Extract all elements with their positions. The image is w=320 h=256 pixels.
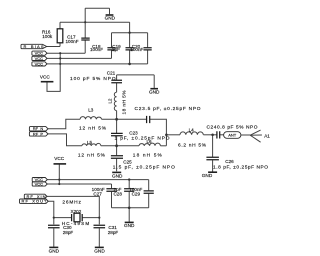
svg-text:6.2 nH 5%: 6.2 nH 5% [178, 142, 207, 148]
svg-text:VCC: VCC [35, 61, 44, 66]
svg-text:ANT: ANT [228, 133, 237, 138]
svg-text:RF_XOUT: RF_XOUT [22, 199, 48, 204]
svg-text:1.5 pF, ±0.25pF NPO: 1.5 pF, ±0.25pF NPO [113, 164, 175, 170]
svg-text:VCC: VCC [35, 181, 44, 186]
svg-text:18 nH 5%: 18 nH 5% [133, 152, 163, 158]
svg-text:28pF: 28pF [108, 230, 119, 235]
svg-text:100nF: 100nF [65, 39, 78, 44]
svg-text:L4: L4 [189, 127, 195, 132]
svg-text:C240.8 pF 5% NPO: C240.8 pF 5% NPO [207, 124, 258, 130]
svg-text:C29: C29 [132, 191, 141, 196]
svg-text:GND: GND [112, 173, 123, 178]
svg-text:GND: GND [49, 249, 60, 254]
svg-text:GND: GND [94, 249, 105, 254]
svg-text:18 nH 5%: 18 nH 5% [121, 90, 127, 115]
svg-text:VCC: VCC [35, 56, 44, 61]
svg-text:100k: 100k [42, 34, 53, 39]
svg-text:GND: GND [124, 223, 135, 228]
svg-text:12 nH 5%: 12 nH 5% [79, 125, 107, 131]
svg-text:L3: L3 [88, 108, 94, 113]
svg-text:C21: C21 [107, 71, 116, 76]
svg-text:A1: A1 [264, 134, 270, 139]
svg-text:1.8 pF, ±0.25pF NPO: 1.8 pF, ±0.25pF NPO [213, 164, 268, 170]
svg-text:12 nH 5%: 12 nH 5% [78, 152, 106, 158]
svg-text:26MHz: 26MHz [62, 200, 81, 206]
svg-text:C26: C26 [225, 159, 234, 164]
svg-text:100 pF 5% NPO: 100 pF 5% NPO [70, 76, 116, 82]
svg-text:C25: C25 [123, 159, 132, 164]
svg-text:GND: GND [202, 173, 213, 178]
svg-text:L5: L5 [87, 140, 93, 145]
svg-text:VCC: VCC [54, 156, 65, 161]
svg-text:100nF: 100nF [90, 47, 103, 52]
svg-text:C27: C27 [93, 191, 102, 196]
svg-text:2pF: 2pF [112, 47, 120, 52]
svg-text:1 pF, ±0.25pF NPO: 1 pF, ±0.25pF NPO [115, 135, 170, 141]
svg-text:VCC: VCC [40, 75, 51, 80]
svg-text:X202: X202 [71, 209, 82, 214]
svg-text:28pF: 28pF [63, 230, 74, 235]
svg-text:GND: GND [149, 90, 160, 95]
svg-text:RF_P: RF_P [33, 131, 44, 136]
svg-text:C23.5 pF, ±0.25pF NPO: C23.5 pF, ±0.25pF NPO [135, 106, 201, 112]
svg-text:GND: GND [105, 15, 116, 20]
svg-text:L2: L2 [108, 98, 113, 103]
svg-text:C28: C28 [113, 191, 122, 196]
svg-text:C23: C23 [129, 130, 138, 135]
svg-text:100nF: 100nF [130, 47, 143, 52]
